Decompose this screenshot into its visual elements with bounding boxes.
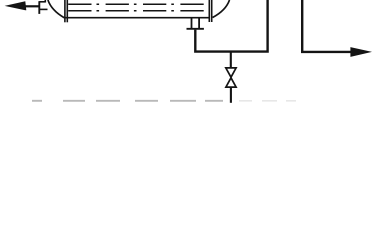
head flange face stub: [44, 0, 46, 3]
shell bottom line: [64, 17, 209, 19]
heat exchanger E1 left head (bonnet curve): [48, 0, 64, 18]
wire: valve branch drop line: [230, 52, 232, 69]
fainter dash remnants right of valve: [239, 100, 296, 102]
bottom nozzle left wall: [191, 18, 193, 28]
bottom nozzle flange bar: [187, 28, 204, 30]
wire: left outlet pipe line: [25, 5, 39, 7]
right tube sheet: [208, 0, 210, 22]
bottom nozzle right wall: [198, 18, 200, 28]
flange (left nozzle flange bar): [38, 1, 40, 14]
wire: pipe from nozzle down, right, and riser up: [195, 0, 267, 52]
left tube sheet: [64, 0, 66, 22]
faint dashed rule (photocopy artifact): [32, 100, 223, 102]
nozzle bottom wall: [39, 8, 47, 10]
tube line (lower, dash-dot): [68, 10, 207, 12]
tube line (upper, dash-dot): [68, 3, 207, 5]
stream arrow (left outlet, filled arrowhead): [5, 1, 27, 10]
stream arrow (right, filled arrowhead): [350, 47, 372, 57]
nozzle top wall: [39, 1, 45, 3]
valve V1 (upper triangle): [226, 68, 236, 77]
wire: valve outlet line: [230, 88, 232, 103]
valve V1 (lower triangle): [226, 78, 236, 87]
wire: right feed line (vertical then horizontal): [302, 0, 352, 52]
heat exchanger E1 right head (bonnet curve): [213, 0, 230, 18]
